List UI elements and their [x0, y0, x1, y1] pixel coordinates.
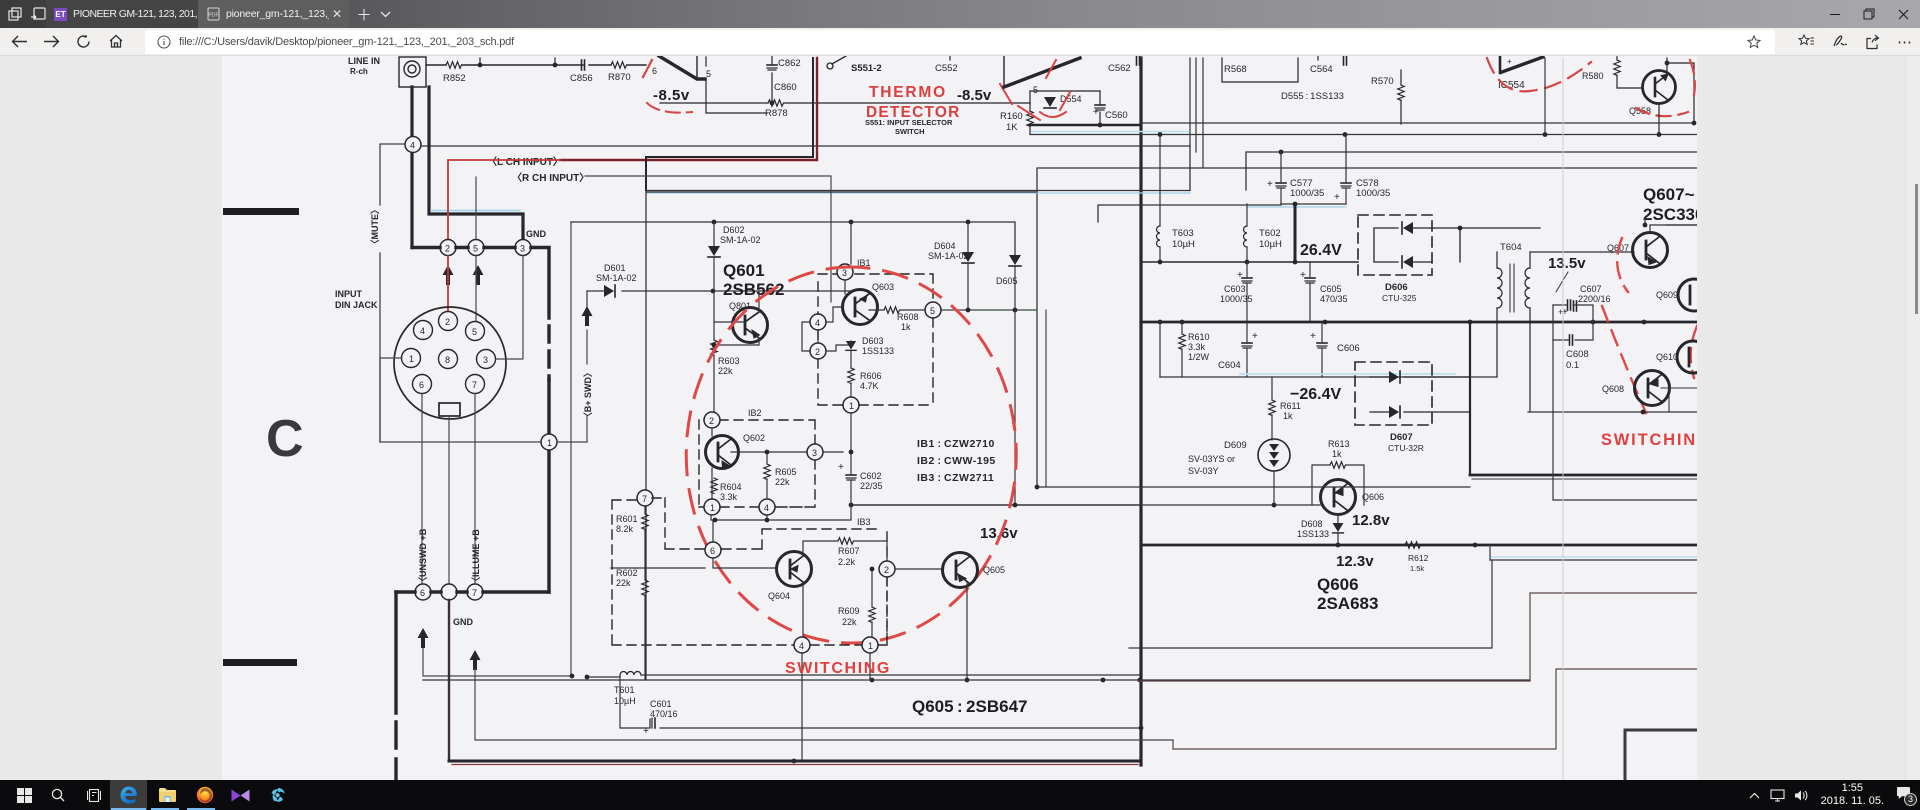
svg-text:3: 3 [520, 244, 525, 254]
resistor R609 [838, 606, 860, 627]
svg-text:C560: C560 [1105, 110, 1128, 121]
wire node1 right [557, 441, 587, 443]
svg-text:1.5k: 1.5k [1410, 564, 1424, 573]
svg-text:4: 4 [764, 503, 769, 513]
svg-text:6: 6 [710, 546, 715, 556]
svg-text:3.3k: 3.3k [720, 492, 738, 502]
svg-text:〈MUTE〉: 〈MUTE〉 [370, 205, 380, 249]
label MUTE vertical [370, 205, 380, 249]
wire R602 top tap [611, 567, 705, 569]
svg-text:R608: R608 [897, 312, 919, 322]
svg-text:Q603: Q603 [872, 282, 894, 292]
svg-text:R611: R611 [1280, 401, 1301, 411]
wire thick node row [412, 248, 549, 319]
svg-text:R852: R852 [443, 73, 466, 84]
svg-text:470/16: 470/16 [650, 709, 678, 719]
svg-text:3: 3 [812, 448, 817, 458]
svg-text:3.3k: 3.3k [1188, 342, 1206, 352]
wire Q603 base net [802, 307, 851, 351]
wire thick y475 [1470, 474, 1697, 477]
node 2 mid [810, 343, 826, 359]
svg-text:R580: R580 [1582, 71, 1604, 81]
wire thick bottom node row [396, 590, 549, 593]
DIN jack circle [394, 307, 506, 419]
diode D607a [1389, 371, 1400, 383]
svg-text:470/35: 470/35 [1320, 294, 1348, 304]
toolbar [0, 28, 1920, 56]
node 7 bottom [467, 584, 483, 600]
svg-text:7: 7 [642, 494, 647, 504]
wire vertical x1545 [1544, 58, 1546, 135]
label IB types [917, 438, 996, 484]
arrow below node7 [470, 650, 481, 670]
wire node6 down to gnd bus [423, 648, 572, 676]
taskbar [0, 780, 1920, 810]
svg-text:1: 1 [710, 503, 715, 513]
svg-text:+: + [1310, 331, 1316, 342]
wire notch down [448, 416, 450, 584]
svg-text:D609: D609 [1224, 440, 1247, 451]
wire thick rail y322 [1141, 321, 1697, 324]
wire Q558 collector up [1667, 58, 1694, 123]
diode D601 [596, 263, 637, 283]
capacitor C607 [1578, 284, 1611, 304]
svg-text:10µH: 10µH [1172, 239, 1195, 250]
arrow up below node5 [473, 265, 484, 285]
wire Q607 top [1645, 218, 1697, 232]
label Q606 2SA683 [1317, 575, 1378, 613]
svg-text:+: + [1252, 331, 1258, 342]
transistor Q610 [1677, 341, 1709, 373]
svg-text:22k: 22k [775, 477, 790, 487]
red arc below Q558 [1636, 108, 1688, 116]
label INPUT DIN JACK [335, 289, 378, 310]
op-amp U551a triangle [659, 56, 705, 79]
dashed box IB3 [612, 498, 887, 645]
capacitor C603 [1242, 278, 1252, 283]
svg-text:Q610: Q610 [1656, 352, 1678, 362]
svg-text:1k: 1k [1283, 411, 1293, 421]
svg-text:C602: C602 [860, 471, 882, 481]
browser tab bar [0, 0, 1920, 28]
node blank bottom [441, 584, 457, 600]
DIN pin 6 [413, 375, 432, 394]
page margin bar bottom-left [223, 659, 297, 666]
svg-text:1000/35: 1000/35 [1220, 294, 1253, 304]
wire stub down [480, 58, 555, 65]
box around pin5 net [706, 57, 767, 113]
capacitor C577 [1276, 183, 1286, 188]
svg-text:-8.5v: -8.5v [957, 87, 992, 104]
arrow B+SWD [582, 306, 593, 326]
node 5 [468, 240, 484, 256]
wire thick from jack down [412, 87, 523, 248]
svg-text:2SA683: 2SA683 [1317, 594, 1378, 613]
node 4 mid [810, 314, 826, 330]
svg-text:3: 3 [842, 268, 847, 278]
svg-text:R570: R570 [1371, 76, 1394, 87]
transistor Q606 [1321, 480, 1356, 515]
svg-text:INPUT: INPUT [335, 289, 363, 299]
wire y728 left [1120, 727, 1141, 729]
diode D608 [1297, 519, 1329, 539]
svg-text:〈L CH INPUT〉: 〈L CH INPUT〉 [487, 155, 563, 168]
page margin bar top-left [223, 208, 299, 215]
svg-text:GND: GND [526, 229, 547, 239]
svg-text:R-ch: R-ch [350, 67, 368, 76]
node 1 [541, 434, 557, 450]
svg-text:1: 1 [868, 641, 873, 651]
dashed box IB1 [818, 274, 933, 405]
svg-text:22k: 22k [616, 578, 631, 588]
resistor R601 [616, 514, 638, 534]
svg-text:LINE IN: LINE IN [348, 56, 380, 66]
svg-text:1: 1 [849, 401, 854, 411]
svg-text:22k: 22k [842, 617, 857, 627]
node 7 left [637, 490, 653, 506]
svg-text:5: 5 [706, 69, 711, 79]
wire D606 out right [1460, 228, 1540, 262]
transistor Q558 [1643, 71, 1676, 104]
red arc left of Q607 [1617, 238, 1628, 292]
svg-text:C862: C862 [778, 58, 801, 69]
dashed box IB2 [699, 420, 815, 507]
wire main thick vertical bus x1140 [1139, 58, 1142, 765]
svg-text:R613: R613 [1328, 439, 1350, 449]
svg-text:R606: R606 [860, 371, 882, 381]
svg-text:R878: R878 [765, 108, 788, 119]
svg-text:Q605 : 2SB647: Q605 : 2SB647 [912, 697, 1028, 716]
svg-text:1: 1 [409, 354, 414, 364]
svg-text:+: + [1300, 270, 1306, 281]
svg-text:1/2W: 1/2W [1188, 352, 1210, 362]
wire node1 down [850, 413, 852, 452]
wire gnd bus y680 [423, 679, 1530, 681]
resistor R604 [711, 478, 717, 494]
node 6 IB3 [705, 542, 721, 558]
wire y560 pair [1490, 559, 1697, 561]
svg-text:R609: R609 [838, 606, 860, 616]
svg-text:2: 2 [445, 244, 450, 254]
inductor T601 [620, 672, 641, 676]
wire Q602 nets [712, 428, 807, 499]
transistor Q602 [706, 436, 739, 469]
svg-text:C601: C601 [650, 699, 672, 709]
svg-text:13.5v: 13.5v [1548, 255, 1586, 272]
capacitor C560 [1095, 105, 1105, 110]
diode D606a [1402, 222, 1413, 234]
svg-text:SV-03YS or: SV-03YS or [1188, 454, 1235, 464]
svg-text:1K: 1K [1006, 122, 1018, 133]
transistor Q607 [1633, 233, 1668, 268]
resistor R607 [838, 546, 860, 567]
svg-text:+: + [1093, 107, 1099, 118]
svg-text:D606: D606 [1385, 282, 1408, 293]
resistor R606 [848, 368, 854, 384]
capacitor C602 [846, 475, 856, 480]
node 5 right [925, 302, 941, 318]
red dashed ellipse switching [686, 267, 1016, 643]
resistor R603 [711, 340, 717, 356]
resistor R852 [446, 62, 462, 68]
svg-text:5: 5 [1033, 85, 1038, 95]
svg-text:PDF: PDF [208, 13, 218, 19]
diode D609 (3-arrow) [1258, 439, 1290, 471]
wire thick to node row bottom [547, 380, 550, 592]
op-amp IC554 triangle [1502, 57, 1543, 72]
wire C577 box bottom [1281, 203, 1346, 205]
wire y593 step [1138, 593, 1697, 681]
svg-text:Q607~: Q607~ [1643, 185, 1695, 204]
svg-text:2SC330: 2SC330 [1643, 205, 1697, 224]
svg-text:8.2k: 8.2k [616, 524, 634, 534]
svg-text:7: 7 [472, 380, 477, 390]
resistor R605 [764, 464, 770, 480]
svg-text:IB1 : CZW2710: IB1 : CZW2710 [917, 438, 995, 450]
svg-text:D604: D604 [934, 241, 956, 251]
diode D607b [1389, 406, 1400, 418]
red arc right page edge [1691, 326, 1697, 378]
svg-text:〈B+ SWD〉: 〈B+ SWD〉 [583, 368, 593, 421]
resistor R612 [1405, 542, 1421, 548]
svg-text:R601: R601 [616, 514, 638, 524]
svg-text:C607: C607 [1580, 284, 1602, 294]
wire thick dashed segment [547, 326, 550, 380]
svg-text:R870: R870 [608, 72, 631, 83]
wire thick bottom y761 [449, 760, 1141, 763]
scrollbar [1905, 56, 1920, 780]
wire y648 step [1129, 560, 1492, 648]
svg-text:4: 4 [410, 141, 415, 151]
node 2 IB2 [704, 412, 720, 428]
arrow below node6 [418, 628, 429, 648]
svg-text:〈R CH INPUT〉: 〈R CH INPUT〉 [512, 171, 589, 184]
svg-text:10µH: 10µH [1259, 239, 1282, 250]
node 3 [515, 240, 531, 256]
svg-text:1000/35: 1000/35 [1290, 188, 1324, 199]
svg-text:Q606: Q606 [1317, 575, 1359, 594]
svg-text:R604: R604 [720, 482, 742, 492]
transistor Q601 [733, 308, 768, 343]
junction [478, 63, 483, 68]
wire 26.4 rail [1141, 261, 1358, 263]
wire switching block left vertical x571 [570, 222, 572, 676]
dashed wire node2 down [886, 577, 888, 637]
svg-text:5: 5 [930, 306, 935, 316]
node 1 IB2 [704, 499, 720, 515]
svg-text:R603: R603 [718, 356, 740, 366]
svg-text:D603: D603 [862, 336, 884, 346]
svg-text:IB3: IB3 [857, 517, 871, 527]
capacitor C605 [1305, 278, 1315, 283]
svg-text:5: 5 [472, 327, 477, 337]
wire node6 to Q604 [713, 558, 777, 568]
svg-text:R602: R602 [616, 568, 638, 578]
node 2 [440, 240, 456, 256]
node 4 IB2 [759, 499, 775, 515]
wire x1470 vertical [1469, 322, 1471, 475]
diode D603 [862, 336, 894, 356]
svg-text:4: 4 [815, 318, 820, 328]
wire thick 12.3 rail [1141, 544, 1697, 547]
wire T601 row [587, 675, 1140, 677]
svg-text:C: C [266, 410, 304, 468]
svg-text:S551: INPUT SELECTOR: S551: INPUT SELECTOR [865, 118, 953, 127]
svg-text:+: + [1558, 307, 1563, 317]
wire -26.4 rail [1160, 376, 1497, 378]
svg-text:C603: C603 [1224, 284, 1246, 294]
red arc left of Q608 [1602, 306, 1646, 413]
node 4 [405, 137, 421, 153]
wire pin1 to left down [380, 358, 541, 442]
wire node5 to D604 D605 [941, 309, 1037, 311]
svg-text:Q606: Q606 [1362, 492, 1384, 502]
wire black beside maroon [646, 58, 813, 190]
svg-text:T603: T603 [1172, 228, 1194, 239]
wire y412 [1528, 411, 1697, 413]
DIN pin 5 [466, 322, 485, 341]
transistor Q608 [1635, 371, 1670, 406]
svg-text:C856: C856 [570, 73, 593, 84]
capacitor C578 [1341, 183, 1351, 188]
diode D606b [1402, 256, 1413, 268]
wire block outline x646 [646, 191, 1037, 193]
transistor Q604 [777, 552, 812, 587]
svg-text:GND: GND [453, 617, 474, 627]
resistor R613 [1328, 439, 1350, 459]
svg-text:22k: 22k [718, 366, 733, 376]
svg-text:Q601: Q601 [723, 261, 765, 280]
wire Q606 base row [1141, 504, 1320, 506]
svg-text:26.4V: 26.4V [1300, 242, 1342, 259]
svg-text:+: + [1267, 179, 1273, 190]
node 1 IB3 [862, 637, 878, 653]
red dash near op-amp U551a [643, 60, 652, 77]
node 6 bottom [415, 584, 431, 600]
resistor R878 [768, 100, 784, 106]
node 3 IB1 [837, 264, 853, 280]
svg-text:R610: R610 [1188, 332, 1210, 342]
svg-text:0.1: 0.1 [1566, 360, 1579, 371]
wire +B bus y222 [571, 222, 1015, 255]
wire Q605 emitter down [870, 583, 967, 680]
svg-text:+: + [1334, 192, 1340, 203]
wire bus y123 [1141, 122, 1694, 124]
svg-text:CTU-325: CTU-325 [1382, 293, 1417, 303]
svg-text:IB3 : CZW2711: IB3 : CZW2711 [917, 472, 994, 484]
resistor R602 [616, 568, 638, 588]
svg-text:-8.5v: -8.5v [653, 87, 690, 104]
wire Q608 row [1661, 388, 1697, 412]
DIN pin 3 [477, 350, 496, 369]
DIN pin 7 [466, 375, 485, 394]
svg-text:1000/35: 1000/35 [1356, 188, 1390, 199]
svg-text:+: + [1237, 270, 1243, 281]
svg-text:6: 6 [652, 66, 657, 76]
wire pin7 down [474, 394, 476, 584]
svg-text:S551-2: S551-2 [851, 63, 882, 74]
svg-text:+: + [838, 462, 844, 473]
wire y669 step [1173, 669, 1697, 749]
switch S551-2 [827, 63, 833, 69]
svg-text:THERMO: THERMO [869, 84, 947, 101]
wire bus y168 (top of PS block) [1037, 168, 1697, 487]
resistor R870 [611, 62, 627, 68]
svg-text:C605: C605 [1320, 284, 1342, 294]
label S551 INPUT SELECTOR SWITCH [865, 118, 953, 136]
resistor R611 [1280, 401, 1301, 421]
svg-text:SV-03Y: SV-03Y [1188, 466, 1219, 476]
wire thick left leg dashed bottom [394, 592, 397, 713]
red arcs D554 [1040, 112, 1066, 117]
svg-text:D608: D608 [1301, 519, 1323, 529]
svg-text:4.7K: 4.7K [860, 381, 879, 391]
diode D604 [928, 241, 969, 261]
DIN pin 4 [414, 321, 433, 340]
transistor Q609 [1678, 279, 1710, 311]
svg-text:1SS133: 1SS133 [862, 346, 894, 356]
wire from pin5 up [475, 177, 477, 239]
svg-text:C604: C604 [1218, 360, 1241, 371]
svg-text:R605: R605 [775, 467, 797, 477]
svg-text:Q604: Q604 [768, 591, 790, 601]
DIN pin 8 [439, 350, 458, 369]
svg-text:22/35: 22/35 [860, 481, 883, 491]
wire C560 box bottom thick [1030, 124, 1141, 127]
wire -8.5 rail [660, 102, 1030, 104]
svg-text:C562: C562 [1108, 63, 1131, 74]
svg-text:Q605: Q605 [983, 565, 1005, 575]
wire bus y206 [1098, 205, 1281, 222]
wire IB2 out bus y520 [711, 505, 851, 542]
resistor R608 [884, 307, 900, 313]
DIN pin 1 [402, 349, 421, 368]
label B+ SWD vertical [583, 368, 593, 421]
dashed box D606 [1358, 215, 1432, 275]
wire bus y152 [1246, 152, 1697, 190]
svg-text:5: 5 [473, 244, 478, 254]
label LINE IN R-ch [348, 56, 380, 76]
wire bus y134.5 [1030, 134, 1697, 136]
svg-text:1: 1 [547, 438, 552, 448]
svg-text:IB2 : CWW-195: IB2 : CWW-195 [917, 455, 996, 467]
svg-text:T602: T602 [1259, 228, 1281, 239]
svg-text:T601: T601 [614, 685, 635, 695]
transistor Q605 [943, 553, 978, 588]
wire pin6 down [421, 394, 423, 584]
svg-text:〈ILLUME +B: 〈ILLUME +B [471, 529, 481, 586]
node 4 IB3 [794, 637, 810, 653]
wire Q604 emitter down [802, 583, 803, 761]
svg-text:D555 : 1SS133: D555 : 1SS133 [1281, 91, 1344, 102]
scan fold line [1562, 58, 1564, 779]
wire 13.6 rail [851, 504, 1141, 506]
svg-text:12.8v: 12.8v [1352, 512, 1390, 529]
wire bus y190 pair [646, 190, 1190, 192]
svg-text:1k: 1k [901, 322, 911, 332]
transistor Q603 [843, 290, 878, 325]
capacitor C606 [1317, 343, 1327, 348]
svg-text:R160: R160 [1000, 111, 1023, 122]
svg-text:C860: C860 [774, 82, 797, 93]
svg-text:3: 3 [483, 355, 488, 365]
wire node7 down [475, 668, 1173, 740]
svg-text:SWITCH: SWITCH [895, 127, 925, 136]
D554 box [1030, 91, 1100, 103]
resistor R610 [1188, 332, 1210, 362]
svg-text:CTU-32R: CTU-32R [1388, 443, 1424, 453]
svg-text:12.3v: 12.3v [1336, 553, 1374, 570]
